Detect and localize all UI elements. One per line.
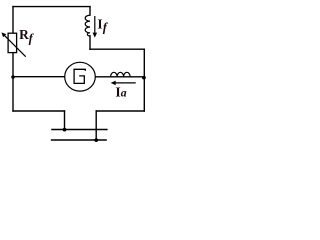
wire bottom-right horizontal [96,110,144,112]
generator G letter [74,69,85,83]
inductor armature coil [111,72,131,76]
inductor field coil [85,15,90,36]
arrow Ia shaft [113,82,136,84]
wire field branch vertical lower [89,36,91,49]
wire left vertical upper [12,7,14,34]
wire left drop to brush bar [64,111,66,129]
junction dot upper brush bar [63,128,67,132]
wire top horizontal [13,6,90,8]
wire field branch horizontal [90,48,144,50]
resistor Rf wiper arrow shaft [4,35,26,57]
junction dot lower brush bar [94,138,98,142]
generator G circle [65,62,96,91]
resistor Rf wiper arrowhead [1,32,6,37]
brush bar upper [52,129,107,131]
wire generator right lead [95,76,144,78]
arrow If head [93,33,98,38]
junction dot armature right [142,76,146,80]
wire left vertical lower [12,53,14,111]
arrow If shaft [94,16,96,34]
wire right drop to brush bar [95,111,97,140]
arrow Ia head [111,81,116,86]
svg-text:a: a [121,86,127,100]
wire right vertical [143,49,145,111]
svg-text:f: f [29,31,35,45]
resistor Rf body [8,33,17,52]
junction dot left net [11,75,15,79]
wire generator left lead [13,76,65,78]
wire bottom-left horizontal [13,110,65,112]
brush bar lower [52,139,106,141]
svg-text:R: R [19,27,29,42]
svg-text:f: f [103,21,109,35]
wire field branch vertical upper [89,7,91,16]
